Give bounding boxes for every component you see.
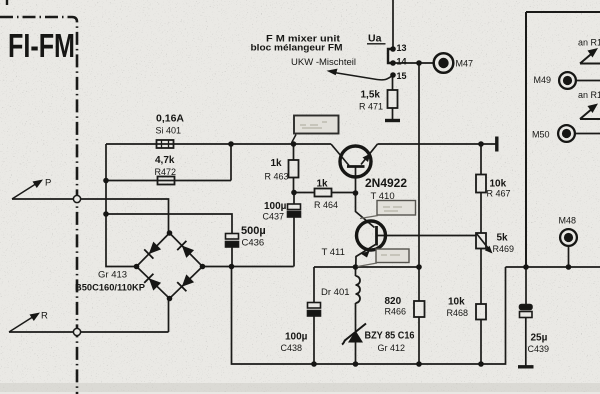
svg-text:100µ: 100µ [264,201,287,212]
svg-text:1k: 1k [271,158,283,169]
svg-text:P: P [45,178,51,189]
svg-text:bloc mélangeur FM: bloc mélangeur FM [251,43,343,53]
svg-text:4,7k: 4,7k [155,155,175,166]
svg-text:2N4922: 2N4922 [365,176,407,190]
svg-text:B50C160/110KP: B50C160/110KP [75,283,146,294]
svg-text:T 411: T 411 [322,247,345,258]
svg-text:R: R [41,311,48,322]
svg-text:15: 15 [397,71,407,81]
svg-text:M49: M49 [534,75,552,85]
svg-text:C436: C436 [242,238,265,249]
svg-text:M47: M47 [456,59,474,69]
svg-text:R 471: R 471 [359,102,383,112]
svg-text:14: 14 [397,57,407,67]
svg-text:FI-FM: FI-FM [8,27,75,64]
svg-text:500µ: 500µ [241,225,266,237]
svg-text:25µ: 25µ [531,333,548,344]
svg-text:Dr 401: Dr 401 [321,287,350,298]
svg-text:an R1: an R1 [578,38,600,48]
svg-text:1,5k: 1,5k [361,90,381,101]
svg-text:0,16A: 0,16A [156,114,184,125]
svg-text:Gr 412: Gr 412 [378,343,406,353]
svg-text:820: 820 [385,296,402,307]
svg-text:BZY 85 C16: BZY 85 C16 [365,331,415,342]
svg-text:13: 13 [397,43,407,53]
svg-text:R 464: R 464 [314,200,338,210]
svg-text:an R1: an R1 [578,90,600,100]
svg-text:T 410: T 410 [371,191,395,202]
svg-text:100µ: 100µ [285,332,308,343]
svg-text:1k: 1k [317,179,329,190]
svg-text:Gr 413: Gr 413 [98,270,127,281]
svg-text:Si 401: Si 401 [156,126,182,136]
svg-text:R 467: R 467 [487,189,511,199]
svg-text:C437: C437 [263,212,285,222]
svg-text:C438: C438 [281,343,303,353]
svg-text:M50: M50 [532,130,550,140]
svg-text:M48: M48 [559,216,577,226]
svg-text:5k: 5k [497,233,509,244]
svg-text:R 463: R 463 [265,172,289,182]
svg-text:R466: R466 [385,307,407,317]
svg-text:UKW -Mischteil: UKW -Mischteil [291,57,356,68]
svg-text:R469: R469 [493,244,515,254]
svg-text:R472: R472 [155,167,177,177]
svg-text:Ua: Ua [368,33,382,45]
svg-text:C439: C439 [528,344,550,354]
svg-text:10k: 10k [448,297,465,308]
svg-text:R468: R468 [447,308,469,318]
